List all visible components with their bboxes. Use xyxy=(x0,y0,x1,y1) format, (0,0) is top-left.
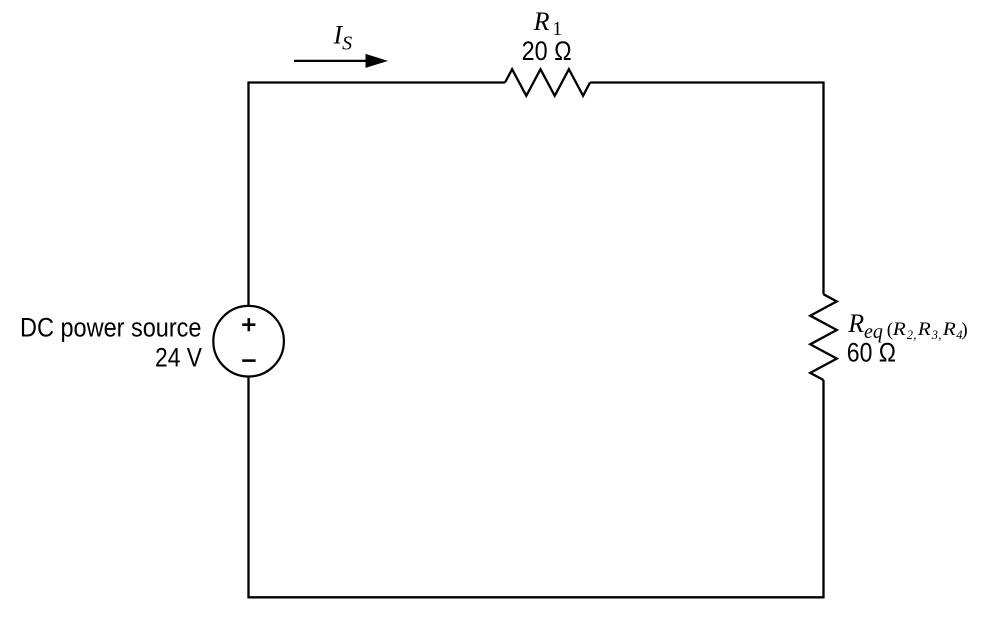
current arrow Is (head) xyxy=(366,54,389,68)
resistor R1 (zigzag, top wire) xyxy=(505,69,590,96)
wire: top-right run (from R1 right, across corner, down to Req) xyxy=(590,83,824,295)
resistor Req (zigzag, right wire) xyxy=(810,294,837,380)
svg-text:60 Ω: 60 Ω xyxy=(847,338,896,368)
DC power source V1 (circle) xyxy=(213,306,284,377)
plus terminal mark xyxy=(242,318,255,331)
svg-text:20 Ω: 20 Ω xyxy=(522,36,572,66)
svg-text:DC power source: DC power source xyxy=(20,313,202,343)
wire: top-left run (from DC source top terminal up and right to R1) xyxy=(249,83,506,307)
svg-text:24 V: 24 V xyxy=(155,342,202,372)
wire: bottom run (from Req bottom, down, across bottom, up to DC source bottom terminal) xyxy=(249,377,824,598)
current arrow Is (shaft) xyxy=(294,60,368,62)
minus terminal mark xyxy=(242,359,255,362)
